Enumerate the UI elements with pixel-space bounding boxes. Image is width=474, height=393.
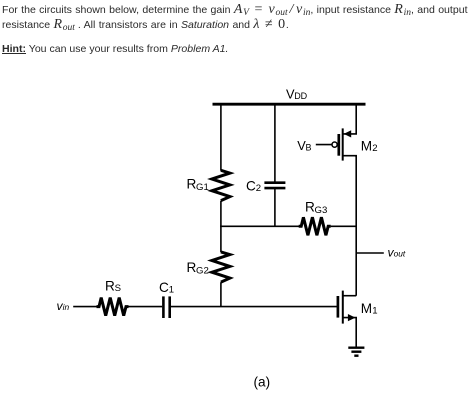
svg-text:S: S bbox=[115, 283, 121, 294]
wire RG3 to right vertical bbox=[331, 225, 357, 227]
resistor RG3 bbox=[299, 217, 331, 235]
problem statement paragraph line 2 bbox=[2, 17, 289, 34]
svg-text:(a): (a) bbox=[254, 375, 271, 390]
wire RG1 top (rail to RG1) bbox=[220, 104, 222, 171]
wire RG2 bottom bbox=[220, 282, 222, 306]
wire mid node to RG3 bbox=[220, 225, 299, 227]
svg-text:C: C bbox=[159, 280, 169, 295]
svg-text:R: R bbox=[105, 279, 115, 294]
vout wire bbox=[356, 252, 384, 254]
wire vin to Rs bbox=[73, 306, 97, 308]
M2 gate bar bbox=[337, 134, 340, 156]
wire C1 to M1 gate bbox=[171, 306, 337, 308]
M2 drain wire (bottom) bbox=[343, 156, 357, 157]
svg-text:G3: G3 bbox=[315, 205, 328, 216]
problem statement paragraph line 1 bbox=[2, 2, 468, 19]
ground bbox=[348, 347, 364, 349]
transistor M1 gate bar bbox=[337, 296, 340, 318]
resistor RG1 bbox=[212, 170, 230, 200]
transistor M2 gate wire from VB bbox=[316, 144, 332, 146]
wire RG2 top bbox=[220, 226, 222, 252]
svg-text:1: 1 bbox=[169, 285, 174, 296]
svg-text:2: 2 bbox=[372, 143, 377, 154]
svg-text:G1: G1 bbox=[196, 182, 209, 193]
svg-text:in: in bbox=[63, 302, 70, 312]
resistor RG2 bbox=[212, 252, 230, 282]
svg-text:M: M bbox=[361, 138, 372, 153]
M2 gate bubble bbox=[332, 142, 337, 147]
svg-text:B: B bbox=[306, 143, 312, 153]
wire RG1 bottom bbox=[220, 201, 222, 227]
hint paragraph bbox=[2, 42, 228, 57]
VDD rail bbox=[213, 103, 366, 106]
svg-text:1: 1 bbox=[372, 306, 377, 317]
svg-text:2: 2 bbox=[256, 183, 261, 194]
M1 channel bar bbox=[342, 291, 344, 324]
M2 source wire (top) bbox=[343, 104, 357, 134]
capacitor C2 bbox=[264, 181, 285, 184]
capacitor C1 bbox=[162, 296, 165, 318]
wire C2 top (rail to C2) bbox=[274, 104, 276, 182]
M1 drain wire (top) bbox=[343, 295, 356, 297]
right vertical wire (M2 drain to M1 drain) bbox=[355, 156, 357, 296]
M1 source arrow bbox=[348, 314, 356, 321]
resistor Rs bbox=[97, 298, 129, 316]
M2 source arrow bbox=[344, 130, 352, 137]
M1 source wire (bottom) bbox=[343, 318, 356, 347]
M2 channel bar bbox=[342, 128, 344, 160]
svg-text:out: out bbox=[394, 248, 406, 258]
svg-text:M: M bbox=[361, 301, 372, 316]
svg-text:R: R bbox=[305, 200, 315, 215]
svg-text:G2: G2 bbox=[196, 265, 209, 276]
wire Rs to C1 bbox=[128, 306, 162, 308]
svg-text:DD: DD bbox=[294, 91, 307, 101]
svg-text:C: C bbox=[246, 179, 256, 194]
svg-text:R: R bbox=[187, 176, 197, 191]
wire C2 bottom bbox=[274, 189, 276, 227]
svg-text:R: R bbox=[187, 260, 197, 275]
